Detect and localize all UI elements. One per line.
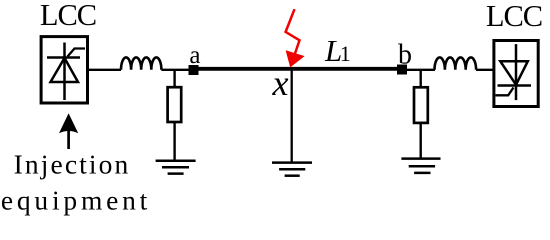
svg-text:LCC: LCC bbox=[486, 0, 542, 33]
svg-text:Injection: Injection bbox=[14, 149, 131, 180]
svg-text:equipment: equipment bbox=[1, 185, 151, 216]
svg-text:x: x bbox=[272, 63, 289, 103]
svg-text:a: a bbox=[189, 42, 200, 69]
svg-text:LCC: LCC bbox=[40, 0, 96, 32]
svg-text:1: 1 bbox=[340, 41, 351, 66]
